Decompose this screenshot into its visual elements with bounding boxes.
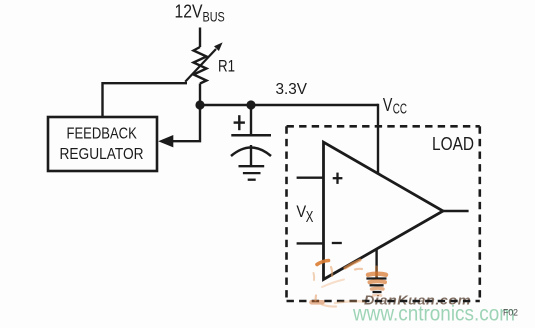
LOAD dashed enclosure [287,126,480,301]
wire op-amp ground lead [375,249,377,278]
capacitor C1 (polarized bypass cap) [231,105,271,165]
junction node at R1 bottom [195,100,204,109]
wire node to feedback regulator input (with arrowhead) [171,105,200,141]
svg-text:REGULATOR: REGULATOR [60,146,144,163]
feedback regulator block [48,117,157,171]
node 12VBUS label [175,1,225,25]
svg-text:R1: R1 [218,57,235,76]
junction node at capacitor [246,100,255,109]
svg-text:BUS: BUS [203,8,225,24]
R1 wiper arrow (diagonal through resistor) [185,42,222,81]
svg-text:12V: 12V [175,1,204,22]
wire feedback (box top up and right to R1 arrow tail) [103,83,188,117]
svg-text:www.cntronics.com: www.cntronics.com [352,303,515,326]
wire noninverting input stub [297,176,324,178]
op-amp minus input label [332,242,342,244]
svg-text:V: V [383,95,393,115]
arrowhead into regulator [158,135,173,147]
wire cap to ground [250,145,252,165]
wire junction to cap top plate [250,105,252,135]
ground (op-amp, inside LOAD) [366,279,386,293]
wire from 12VBUS to R1 top [199,28,201,48]
cap curved bottom plate [231,148,271,157]
node VCC label [383,95,407,118]
svg-text:LOAD: LOAD [432,134,474,154]
svg-text:V: V [296,203,306,221]
watermark stamp (orange scribble) [312,260,387,307]
op-amp plus input label [333,173,343,184]
svg-text:FEEDBACK: FEEDBACK [67,126,138,143]
op-amp U1 (comparator triangle) [324,142,444,279]
svg-text:F02: F02 [503,308,518,319]
wire op-amp output stub [443,210,469,212]
svg-text:X: X [306,209,314,226]
wire 3.3V rail [200,104,378,106]
cap top plate [231,134,271,137]
svg-text:CC: CC [393,102,407,118]
resistor R1 (variable, zigzag body) [194,47,207,84]
wire inverting input stub [297,242,324,244]
ground (below capacitor) [239,166,265,180]
wire VCC drop to op-amp [377,104,379,174]
svg-text:3.3V: 3.3V [276,81,308,98]
wire R1 bottom to node junction [199,84,201,107]
capacitor plus polarity mark [234,115,245,130]
node VX label [296,203,313,226]
